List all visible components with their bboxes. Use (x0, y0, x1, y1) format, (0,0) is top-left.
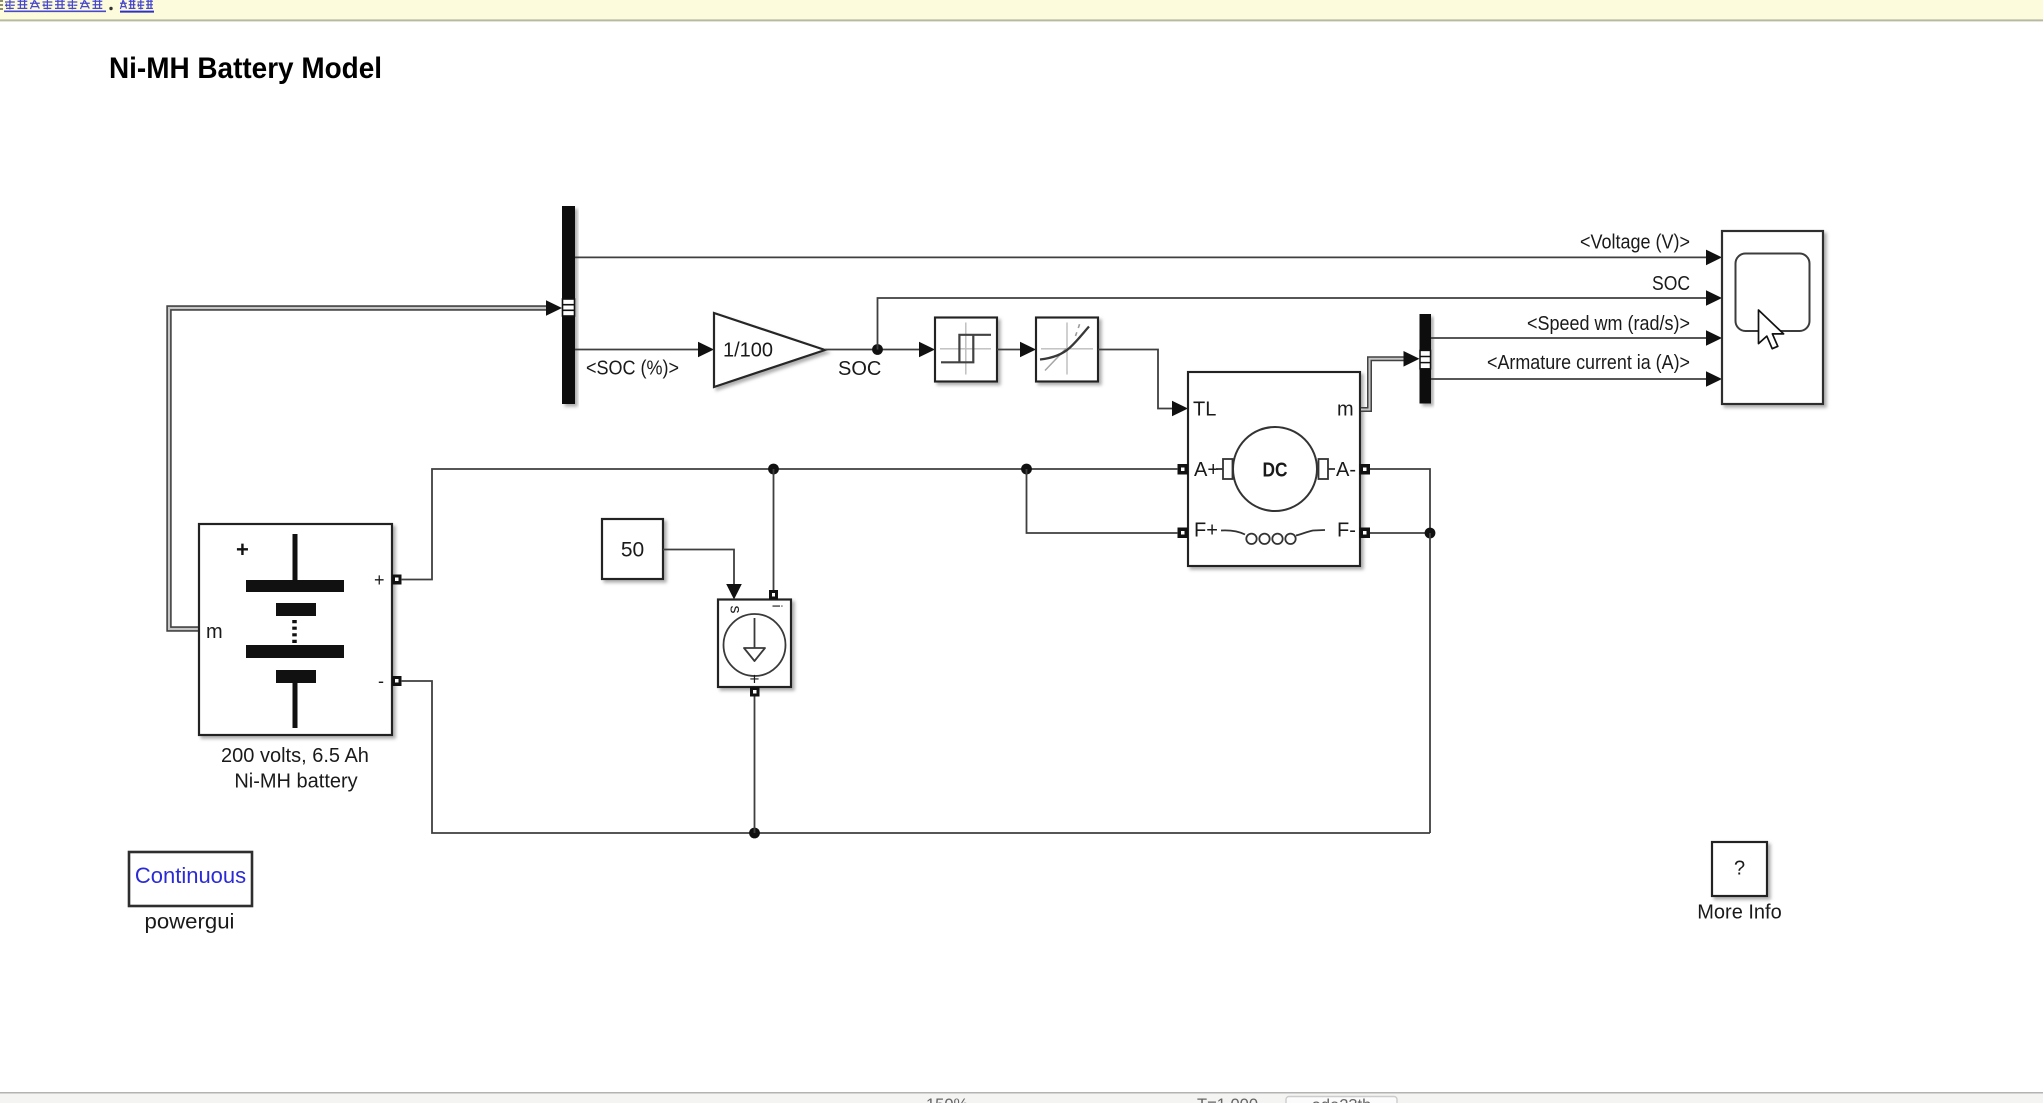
svg-text:+: + (374, 570, 385, 590)
svg-text:DC: DC (1263, 460, 1288, 482)
svg-text:?: ? (1734, 858, 1745, 880)
diagram title (109, 52, 382, 85)
junction dot at current source i tap (768, 464, 779, 475)
junction dot at F+ branch (1021, 464, 1032, 475)
svg-text:1/100: 1/100 (723, 340, 773, 362)
svg-text:i: i (770, 605, 786, 608)
svg-text:200 volts, 6.5 Ah: 200 volts, 6.5 Ah (221, 745, 369, 767)
Bus Selector 2 input arrowhead (1404, 351, 1420, 367)
DC machine F- port (1360, 528, 1371, 539)
junction dot on bottom rail at current source (749, 828, 760, 839)
wire: F+ branch (1027, 469, 1179, 533)
svg-text:powergui: powergui (145, 911, 235, 934)
svg-text:<Speed wm (rad/s)>: <Speed wm (rad/s)> (1527, 313, 1690, 335)
junction dot at F-/A- node (1425, 528, 1436, 539)
wire: battery - to bottom rail (401, 681, 1430, 833)
wire: Bus Selector 1 out2 to Gain input (575, 342, 714, 358)
Bus Selector 1 (vertical bar) (562, 206, 575, 404)
wire: Bus Selector 1 out1 to Scope port1 (Voltage) (575, 250, 1722, 266)
status bar (0, 1093, 2043, 1103)
svg-text:+: + (236, 537, 249, 562)
wire: battery + to DC machine A+ (401, 469, 1178, 580)
Scope block (1722, 231, 1823, 404)
constant block 50 (602, 519, 663, 579)
battery caption (221, 745, 369, 792)
svg-text:s: s (727, 606, 744, 614)
svg-text:F-: F- (1337, 520, 1356, 542)
battery + port (392, 575, 402, 585)
svg-text:F+: F+ (1194, 520, 1218, 542)
wire: gain output to Saturation input (825, 342, 935, 358)
svg-text:150%: 150% (926, 1096, 969, 1103)
wire: DC machine F- to node (1370, 532, 1430, 534)
banner partial Chinese link text (simulated glyph strokes) (0, 0, 154, 12)
DC machine block (1188, 372, 1360, 566)
notification banner background (0, 0, 2043, 20)
wire: node down to bottom rail (1429, 533, 1431, 833)
svg-text:<SOC (%)>: <SOC (%)> (586, 358, 679, 380)
powergui block (129, 852, 252, 906)
svg-text:More Info: More Info (1697, 902, 1781, 924)
current source i port (769, 590, 778, 600)
wire: SOC branch to Scope port2 (878, 290, 1723, 349)
lookup table block (1036, 318, 1098, 382)
svg-text:<Armature current ia (A)>: <Armature current ia (A)> (1487, 352, 1690, 374)
svg-text:+: + (750, 670, 760, 689)
wire: Bus Selector 2 out2 to Scope port4 (1431, 371, 1722, 387)
gain block 1/100 (triangle) (714, 313, 825, 387)
wire: DC machine A- down to F- node (1370, 469, 1430, 533)
DC machine F+ port (1178, 528, 1189, 539)
DC machine A+ port (1178, 464, 1189, 475)
svg-text:T=1.000: T=1.000 (1197, 1096, 1258, 1103)
svg-text:m: m (206, 621, 223, 643)
svg-text:TL: TL (1193, 399, 1216, 421)
junction dot on SOC wire (872, 344, 883, 355)
wire: current source bottom to rail (754, 697, 756, 834)
svg-text:A+: A+ (1194, 459, 1219, 481)
svg-text:Continuous: Continuous (135, 863, 246, 888)
wire: Bus Selector 2 out1 to Scope port3 (1431, 330, 1722, 346)
battery - port (392, 676, 402, 686)
svg-text:A-: A- (1336, 459, 1356, 481)
svg-text:Ni-MH battery: Ni-MH battery (234, 770, 357, 792)
saturation (relay) block (935, 318, 997, 382)
svg-text:SOC: SOC (1652, 273, 1690, 295)
current source bottom port (750, 687, 760, 697)
wire: saturation to lookup table (997, 342, 1036, 358)
More Info block (1712, 842, 1767, 896)
controlled current source block (718, 600, 791, 689)
svg-text:Ni-MH Battery Model: Ni-MH Battery Model (109, 52, 382, 85)
wire: DC machine m to Bus Selector 2 (bus double line) (1361, 359, 1405, 410)
svg-text:SOC: SOC (838, 358, 881, 380)
svg-text:m: m (1337, 399, 1354, 421)
wire: current source i port up to A+ net (773, 469, 775, 591)
svg-text:<Voltage (V)>: <Voltage (V)> (1580, 232, 1690, 254)
DC machine A- port (1360, 464, 1371, 475)
svg-text:ode23tb: ode23tb (1312, 1097, 1372, 1103)
svg-text:50: 50 (621, 539, 644, 562)
wire: battery m to Bus Selector 1 (bus double line) (169, 308, 548, 629)
svg-text:-: - (378, 671, 384, 691)
Bus Selector 2 (vertical bar) (1420, 314, 1432, 404)
wire: lookup table to DC machine TL (1098, 350, 1188, 417)
battery block (199, 524, 392, 735)
Bus Selector 1 input arrowhead (546, 300, 562, 316)
wire: constant 50 to current source s input (663, 550, 742, 600)
mouse cursor (1759, 310, 1784, 349)
